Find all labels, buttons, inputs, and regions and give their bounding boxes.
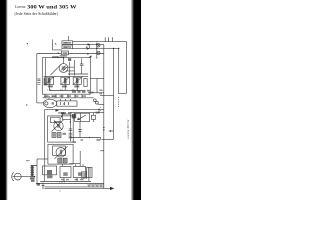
tube V2 electrode blob xyxy=(57,124,60,128)
bottom box A xyxy=(60,167,71,178)
bottom bus y181.5 xyxy=(40,181,91,183)
left drop bus x44.7 xyxy=(44,109,46,181)
capacitor top right xyxy=(80,59,84,75)
vertical bus x118.7 xyxy=(118,48,120,94)
tube V2 diagonals xyxy=(52,120,64,132)
bus y184.9 segment xyxy=(87,184,103,186)
tube V3 circle xyxy=(56,148,66,158)
wire H y41.6 xyxy=(73,41,127,43)
arrow on wire y48.4 xyxy=(87,47,90,50)
labels under shelf end xyxy=(97,139,101,141)
drop x37 xyxy=(36,159,38,184)
transformer junction dots xyxy=(34,176,35,177)
fills in L1 lower boxes xyxy=(53,133,56,137)
arrow box right xyxy=(75,113,90,121)
dark box on L1 top right xyxy=(72,114,76,118)
vertical bus x96.8 xyxy=(96,43,98,59)
tube V1 diagonal lead xyxy=(51,65,62,76)
arrow box divider xyxy=(80,113,82,121)
pot P3 xyxy=(73,77,81,84)
transformer core xyxy=(31,165,34,177)
dark blobs below coil xyxy=(30,177,35,179)
oval inner circle xyxy=(45,102,48,105)
flat box ticks xyxy=(61,99,71,101)
wire H y53.5 left xyxy=(37,53,62,55)
cap bars on column xyxy=(69,129,73,135)
wide flat box (band cable) xyxy=(57,101,77,106)
dot on cap column xyxy=(70,121,71,122)
label (A) right of arrow box xyxy=(96,112,100,114)
wire y104.5 right xyxy=(98,104,104,106)
labels under wire y109 xyxy=(61,112,66,114)
cluster below flat box xyxy=(47,175,53,178)
right drop x80.2 xyxy=(79,151,81,166)
left page-edge black strip xyxy=(0,0,6,200)
svg-text:S: S xyxy=(58,51,60,55)
dot on box top edge xyxy=(63,57,64,58)
oval stub xyxy=(48,98,50,99)
svg-text:5: 5 xyxy=(55,42,57,46)
link between arrows xyxy=(88,44,90,48)
tube V1 top wire xyxy=(63,58,65,64)
left component hatch xyxy=(44,78,48,86)
mid horizontals in box xyxy=(66,67,74,71)
small component right of arrow box xyxy=(92,115,96,119)
switch box S xyxy=(62,51,69,55)
svg-text:▮: ▮ xyxy=(61,115,62,118)
transformer top/bottom wires xyxy=(30,166,37,177)
wire H y112.6 xyxy=(70,112,104,114)
wire to tube oval xyxy=(37,102,44,104)
shelf y137.5 xyxy=(71,138,101,140)
wire y163.6 xyxy=(69,163,80,165)
ticks box to bus xyxy=(45,94,82,98)
svg-text:C: C xyxy=(63,102,65,106)
tube V2 circle xyxy=(54,121,63,130)
dashed continuation x118.7 xyxy=(118,97,120,107)
label 11 xyxy=(37,183,40,186)
tube V3 electrode bar xyxy=(60,150,62,155)
pot drops xyxy=(50,84,78,90)
speaker arc xyxy=(12,172,14,181)
arrow into box top xyxy=(89,55,92,57)
under-box label row xyxy=(45,95,49,97)
bottom bus y183.5 xyxy=(36,183,104,185)
wire corner y139.5 xyxy=(102,139,114,141)
pot P2 xyxy=(61,77,70,84)
hatched boxes in L1 xyxy=(52,133,56,138)
bottom box B xyxy=(73,167,85,178)
AC symbol circle 2 xyxy=(97,51,100,54)
tick on bus y150.8 xyxy=(100,150,104,152)
switch text T3 xyxy=(63,52,68,53)
pot P1 xyxy=(45,77,54,84)
output transformer coils xyxy=(30,166,33,177)
jack circles xyxy=(93,99,96,102)
tick T arrow xyxy=(26,160,30,162)
inner rect around tube V3 xyxy=(53,146,66,155)
svg-text:8: 8 xyxy=(87,52,89,56)
inner box top-left of L1 xyxy=(51,117,61,122)
mid verticals in box xyxy=(70,60,75,76)
drop from dot x99 xyxy=(98,109,100,112)
small box on L1 top xyxy=(62,114,70,120)
wire above pots y76.4 xyxy=(44,75,89,77)
top stubs right xyxy=(105,37,112,41)
svg-text:3: 3 xyxy=(26,103,28,107)
bottom labels row xyxy=(61,179,65,181)
wire H y48.4 xyxy=(73,47,119,49)
svg-text:300 W und 305 W: 300 W und 305 W xyxy=(27,4,77,10)
pot wiper arrows xyxy=(44,77,82,85)
svg-text:Lorenz 300 W: Lorenz 300 W xyxy=(126,120,130,139)
tiny labels as marks xyxy=(26,42,102,113)
bottom bus y186.9 xyxy=(45,186,104,188)
dark blob top edge right xyxy=(68,58,71,61)
vertical bus x103.8 xyxy=(103,44,105,188)
pot P2 wiper bar xyxy=(64,78,67,84)
svg-text:4 2o 8: 4 2o 8 xyxy=(59,182,66,184)
inner vertical left xyxy=(44,58,46,77)
arrow in box xyxy=(78,115,87,120)
wire corner y93.3 xyxy=(119,92,127,94)
label under P2 xyxy=(62,85,67,87)
left bus x36.8 xyxy=(36,54,38,103)
fuse box F1 xyxy=(62,41,73,45)
wire y74 right of tube xyxy=(68,73,88,75)
AC symbol circle 1 xyxy=(97,44,100,47)
fuse box F2 xyxy=(62,45,73,49)
bottom box C xyxy=(87,167,92,177)
lower box L1 (tube V2) xyxy=(48,116,74,142)
label above box xyxy=(52,56,59,58)
wire top stub xyxy=(68,36,70,41)
under-box wire y97.8 xyxy=(42,97,90,99)
svg-text:Lorenz: Lorenz xyxy=(14,5,26,9)
bus ticks xyxy=(89,185,101,187)
arrowhead bottom right xyxy=(110,187,114,190)
bottom hatch box stripes xyxy=(81,171,82,179)
oval inner dots xyxy=(52,102,54,104)
ground symbol xyxy=(42,183,45,189)
wire H y44.4 xyxy=(73,43,104,45)
tube V1 circle xyxy=(59,64,68,73)
label left of cap column xyxy=(63,133,67,135)
label under P1 xyxy=(48,85,53,87)
L2 hatch fills xyxy=(58,159,61,163)
capacitor pair left of box xyxy=(38,79,41,84)
bottom-left corner wire xyxy=(37,158,48,160)
interconnect wire y90.5 xyxy=(50,90,86,92)
antenna stub left xyxy=(52,40,62,50)
speaker wire xyxy=(13,176,31,178)
fuse text T1 xyxy=(63,42,71,43)
lower box L2 (tube V3) xyxy=(48,144,73,164)
cap column right x80 xyxy=(79,122,81,138)
junction dots xyxy=(96,44,97,45)
svg-text:0,1 5o 2k 0,5: 0,1 5o 2k 0,5 xyxy=(44,96,57,98)
svg-text:(Jede Seite der Schaltbilder): (Jede Seite der Schaltbilder) xyxy=(15,12,59,16)
wire y92.8 right xyxy=(88,92,104,94)
flat box bottom-left xyxy=(43,166,57,175)
arrow mid left xyxy=(56,110,60,112)
vertical bus x113.5 xyxy=(113,48,115,139)
tube V1 electrodes xyxy=(61,66,66,72)
label under switch xyxy=(60,55,68,56)
fuse text T2 xyxy=(63,46,71,47)
label above L2 right corner xyxy=(73,141,76,143)
arrow on wire y44.4 xyxy=(88,43,91,46)
vertical bus x126.6 xyxy=(126,42,128,94)
flat box dark blob xyxy=(47,170,52,174)
bottom box A marks xyxy=(63,172,67,176)
stub right of box y78.4 xyxy=(90,78,104,92)
label above small box xyxy=(58,112,64,113)
blob under cap column xyxy=(69,136,72,138)
speaker circle xyxy=(14,173,21,180)
pot P3 wiper bar xyxy=(76,78,79,84)
svg-text:Netzteil: Netzteil xyxy=(57,56,65,59)
wire H y95.4 xyxy=(100,94,114,96)
wire H y109.3 xyxy=(45,108,104,110)
flat box inner ticks xyxy=(61,102,69,105)
tube V3 diagonal xyxy=(55,146,68,159)
node tap x113.5 y131 xyxy=(109,130,114,132)
label under P3 xyxy=(74,85,79,87)
svg-text:+: + xyxy=(100,110,102,113)
label row y91 xyxy=(72,91,76,93)
resistor right column xyxy=(84,79,87,87)
right page-edge black strip xyxy=(134,0,141,200)
tube oval (indicator) xyxy=(43,99,56,107)
upper chassis box xyxy=(42,58,90,94)
bottom bus y188.4 xyxy=(45,187,105,189)
pot P1 wiper bar xyxy=(48,78,51,84)
tube V1 anode blob xyxy=(62,66,65,70)
dark marks in L2 xyxy=(58,158,62,163)
wire y97.8 extension xyxy=(90,97,93,99)
column caps x70.4 xyxy=(69,120,71,142)
wire H y53.5 right xyxy=(69,53,104,55)
bottom box B marks xyxy=(78,172,82,176)
